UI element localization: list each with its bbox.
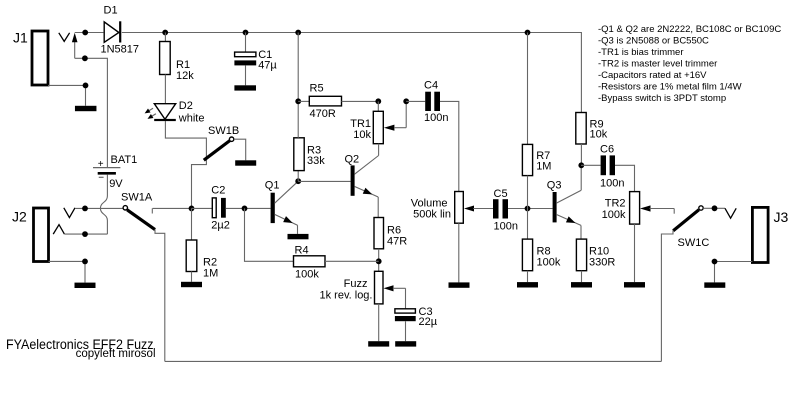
- svg-text:C5: C5: [494, 188, 508, 200]
- svg-text:100k: 100k: [537, 256, 561, 268]
- svg-text:12k: 12k: [176, 70, 194, 82]
- transistor Q3 emitter: [556, 214, 581, 225]
- node Q3 base junction: [525, 206, 531, 212]
- capacitor C2 plate 1: [212, 198, 216, 218]
- jack J3 body: [752, 207, 768, 262]
- svg-text:33k: 33k: [307, 155, 325, 167]
- node input junction: [189, 206, 195, 212]
- wire C3 bottom lead: [405, 321, 407, 341]
- ground at J3: [704, 282, 725, 287]
- node Q1 base junction: [242, 206, 248, 212]
- node J2 ring dot: [82, 231, 88, 237]
- wire TR1 bottom to Q2 collector: [378, 144, 380, 156]
- wire R5 right lead: [342, 100, 379, 102]
- svg-text:+: +: [98, 159, 104, 170]
- capacitor C1 negative plate: [234, 60, 256, 65]
- wire Fuzz bottom to ground: [378, 304, 380, 341]
- capacitor C3 negative plate: [395, 316, 416, 321]
- svg-text:9V: 9V: [109, 178, 123, 190]
- wire C4 left lead: [406, 100, 425, 102]
- transistor Q1 emitter: [275, 214, 298, 225]
- svg-text:500k lin: 500k lin: [413, 209, 451, 221]
- wire R5 left lead: [298, 100, 309, 102]
- ground at C1: [234, 85, 256, 90]
- svg-text:BAT1: BAT1: [111, 154, 138, 166]
- capacitor C2 plate 2: [221, 198, 226, 218]
- ground at R8: [517, 282, 538, 287]
- transistor Q2 base bar: [351, 165, 355, 195]
- wire J1 ring to battery plus: [75, 58, 108, 167]
- svg-text:J1: J1: [13, 30, 28, 46]
- potentiometer Fuzz body: [375, 271, 384, 304]
- resistor R4 horizontal: [294, 256, 326, 267]
- wire Q3 emitter to R10: [580, 225, 582, 239]
- jack J1 tip contact V symbol: [59, 33, 70, 42]
- trimmer TR1 wiper arrow: [384, 125, 395, 131]
- wire Q1 collector to Q2 base: [298, 180, 350, 182]
- switch SW1A blade: [127, 210, 155, 230]
- jack J1 tip arrow: [74, 39, 76, 58]
- svg-text:470R: 470R: [310, 108, 336, 120]
- battery BAT1 negative plate: [98, 172, 116, 175]
- capacitor C4 plate 1: [425, 92, 431, 111]
- wire J3 sleeve to ground: [715, 262, 753, 283]
- transistor Q3 collector: [556, 190, 581, 203]
- battery BAT1 positive plate: [93, 167, 120, 169]
- wire R1 to LED: [164, 75, 166, 104]
- resistor R6: [374, 218, 384, 249]
- node R6 fuzz junction: [376, 258, 382, 264]
- trimmer TR2 wiper arrow: [640, 205, 651, 211]
- ground at C3: [395, 341, 416, 346]
- wire R7 bottom lead: [527, 176, 529, 209]
- ground at Q1: [288, 234, 309, 239]
- transistor Q2 emitter: [354, 186, 378, 197]
- svg-text:47µ: 47µ: [258, 60, 277, 72]
- wire C1 top lead: [245, 33, 247, 52]
- svg-text:-Capacitors rated at +16V: -Capacitors rated at +16V: [598, 70, 707, 81]
- transistor Q1 collector: [275, 181, 299, 203]
- svg-text:10k: 10k: [590, 129, 608, 141]
- wire R3 bottom lead: [297, 171, 299, 182]
- svg-text:TR2: TR2: [605, 198, 626, 210]
- svg-text:D2: D2: [179, 100, 193, 112]
- node J3 sleeve dot: [712, 259, 718, 265]
- svg-text:47R: 47R: [387, 235, 407, 247]
- wire Volume bottom to ground: [458, 223, 460, 282]
- node J3 tip dot: [712, 205, 718, 211]
- node V+ R7 tap: [525, 30, 531, 36]
- resistor R3: [294, 138, 304, 171]
- potentiometer Volume body: [455, 192, 464, 224]
- resistor R8: [522, 239, 532, 271]
- LED D2 light arrow 2: [149, 114, 156, 118]
- diode D1: [104, 22, 119, 42]
- svg-text:−: −: [98, 173, 104, 184]
- node J2 tip dot: [82, 206, 88, 212]
- wire Q2 emitter to R6: [377, 197, 379, 218]
- wire Q1 emitter to ground: [297, 225, 299, 234]
- resistor R2: [186, 240, 197, 272]
- transistor Q2 collector: [354, 156, 378, 175]
- node J1 ring dot: [82, 55, 88, 61]
- wire R1 top lead: [164, 33, 166, 42]
- svg-text:-Bypass switch is 3PDT stomp: -Bypass switch is 3PDT stomp: [598, 93, 726, 104]
- wire Fuzz wiper to C3: [405, 288, 407, 309]
- capacitor C6 plate 1: [601, 155, 606, 175]
- switch SW1A lower throw to bypass bus: [155, 229, 165, 361]
- wire C6 left lead: [581, 164, 601, 166]
- wire J2 sleeve to ground: [49, 261, 86, 282]
- svg-text:100n: 100n: [600, 177, 624, 189]
- capacitor C5 plate 2: [503, 199, 509, 218]
- svg-text:C6: C6: [600, 143, 614, 155]
- ground at Fuzz: [368, 341, 389, 346]
- wire bypass bus: [165, 360, 662, 362]
- resistor R7: [522, 144, 532, 175]
- svg-text:1M: 1M: [203, 267, 218, 279]
- svg-text:SW1B: SW1B: [208, 125, 239, 137]
- switch SW1C common contact: [699, 206, 703, 210]
- svg-text:-Resistors are 1% metal film 1: -Resistors are 1% metal film 1/4W: [598, 82, 742, 93]
- svg-text:J3: J3: [774, 209, 789, 225]
- ground at TR2: [624, 282, 645, 287]
- wire SW1C common to J3 tip: [703, 207, 725, 209]
- jack J2 body: [34, 208, 49, 262]
- svg-text:Q1: Q1: [265, 180, 280, 192]
- resistor R1: [160, 42, 171, 75]
- wire R7 top lead: [527, 33, 529, 145]
- switch SW1C upper throw tick: [673, 209, 675, 214]
- svg-text:-TR2 is master level trimmer: -TR2 is master level trimmer: [598, 59, 717, 70]
- svg-text:22µ: 22µ: [419, 316, 438, 328]
- wire J1 sleeve to ground: [48, 85, 86, 105]
- wire R8 top lead: [527, 209, 529, 240]
- switch SW1A upper throw tick: [151, 208, 153, 213]
- node TR1 wiper junction: [403, 98, 409, 104]
- ground at SW1B: [235, 160, 256, 165]
- capacitor C5 plate 1: [493, 199, 499, 218]
- LED D2 light arrow 1: [146, 108, 153, 112]
- wire C1 bottom lead: [245, 65, 247, 85]
- svg-text:100n: 100n: [494, 221, 518, 233]
- wire LED cathode to SW1B throw: [165, 121, 206, 161]
- ground at J2: [75, 283, 96, 288]
- switch SW1C lower throw to bypass bus: [661, 230, 673, 361]
- jack J3 tip contact V symbol: [725, 208, 736, 218]
- svg-text:Fuzz: Fuzz: [344, 278, 368, 290]
- svg-text:C2: C2: [211, 185, 225, 197]
- wire V+ rail left segment: [75, 32, 104, 34]
- node R9 C6 junction: [578, 162, 584, 168]
- wire R6 bottom lead: [378, 249, 380, 271]
- switch SW1A common contact: [123, 206, 127, 210]
- trimmer TR1 body: [373, 111, 383, 143]
- resistor R5 horizontal: [309, 96, 341, 106]
- wire C2 to Q1 base: [226, 207, 271, 209]
- node TR1 top junction: [375, 98, 381, 104]
- wire C6 to TR2: [615, 165, 635, 191]
- potentiometer Fuzz wiper arrow: [384, 285, 394, 291]
- transistor Q1 base bar: [271, 193, 275, 223]
- wire input to C2: [192, 207, 213, 209]
- transistor Q3 base bar: [553, 192, 557, 222]
- wire SW1A to input node: [153, 207, 192, 209]
- svg-text:R4: R4: [295, 245, 309, 257]
- wire SW1B common to ground: [234, 139, 246, 160]
- ground at R10: [571, 282, 592, 287]
- svg-text:Q3: Q3: [547, 180, 562, 192]
- capacitor C3 positive plate: [395, 309, 416, 313]
- wire R9 bottom lead: [580, 144, 582, 165]
- node V+ R5 tap: [295, 30, 301, 36]
- wire R3 top lead to V+: [297, 33, 299, 138]
- svg-text:10k: 10k: [353, 129, 371, 141]
- node V+ R1 tap: [162, 30, 168, 36]
- wire C5 to Q3 base: [508, 208, 553, 210]
- node V+ C1 tap: [243, 30, 249, 36]
- wire Q1 base to R4: [245, 208, 294, 261]
- switch SW1C blade: [673, 210, 699, 231]
- node J2 sleeve dot: [82, 259, 88, 265]
- svg-text:1k rev. log.: 1k rev. log.: [320, 290, 373, 302]
- wire J2 ring to battery minus: [64, 233, 107, 235]
- svg-text:100k: 100k: [295, 269, 319, 281]
- svg-text:Q2: Q2: [345, 154, 360, 166]
- wire R4 right lead: [325, 260, 379, 262]
- wire C4 to Volume: [440, 101, 459, 191]
- node Q1 collector junction: [295, 178, 301, 184]
- node R5 left junction: [295, 98, 301, 104]
- wire R2 bottom lead: [191, 272, 193, 282]
- svg-text:100n: 100n: [424, 112, 448, 124]
- svg-text:1M: 1M: [536, 160, 551, 172]
- svg-text:-TR1 is bias trimmer: -TR1 is bias trimmer: [598, 47, 684, 58]
- wire Q3 collector up: [580, 165, 582, 190]
- svg-text:1N5817: 1N5817: [101, 44, 140, 56]
- ground at J1: [75, 106, 97, 111]
- wire R2 top lead: [191, 208, 193, 240]
- svg-text:330R: 330R: [589, 256, 615, 268]
- LED D2: [154, 104, 175, 120]
- wire SW1B throw to input node: [192, 161, 207, 208]
- wire R8 bottom lead: [527, 271, 529, 282]
- ground at Volume: [449, 282, 470, 287]
- svg-text:C4: C4: [424, 80, 438, 92]
- svg-text:2µ2: 2µ2: [211, 220, 230, 232]
- wire V+ rail main segment: [122, 33, 582, 113]
- node J1 sleeve dot: [83, 83, 89, 89]
- switch SW1B common contact: [229, 137, 233, 141]
- svg-text:-Q3 is 2N5088 or BC550C: -Q3 is 2N5088 or BC550C: [598, 35, 709, 46]
- resistor R10: [576, 239, 586, 271]
- svg-text:-Q1 & Q2 are 2N2222, BC108C or: -Q1 & Q2 are 2N2222, BC108C or BC109C: [598, 24, 781, 35]
- wire battery minus with hop over input: [100, 175, 107, 235]
- jack J1 body: [32, 31, 48, 85]
- wire J2 tip to SW1A: [75, 207, 123, 209]
- svg-text:white: white: [178, 112, 205, 124]
- svg-text:R5: R5: [310, 83, 324, 95]
- resistor R9: [576, 113, 586, 145]
- node V+ at J1 tip: [82, 30, 88, 36]
- wire TR2 bottom to ground: [634, 224, 636, 282]
- wire TR1 top lead: [377, 101, 379, 111]
- capacitor C6 plate 2: [610, 155, 615, 175]
- svg-text:SW1C: SW1C: [678, 237, 710, 249]
- wire TR1 wiper up: [405, 101, 407, 127]
- svg-text:J2: J2: [12, 209, 27, 225]
- trimmer TR2 body: [630, 192, 640, 225]
- wire R10 bottom lead: [581, 271, 583, 282]
- capacitor C1 positive plate: [235, 52, 256, 57]
- capacitor C4 plate 2: [434, 92, 440, 111]
- svg-text:SW1A: SW1A: [121, 192, 153, 204]
- switch SW1B blade: [204, 141, 230, 161]
- svg-text:100k: 100k: [602, 209, 626, 221]
- svg-text:D1: D1: [104, 5, 118, 17]
- jack J2 tip contact V symbol: [64, 208, 75, 218]
- jack J2 ring contact symbol: [53, 225, 64, 235]
- ground at R2: [181, 282, 202, 287]
- potentiometer Volume wiper arrow: [464, 206, 474, 212]
- svg-text:copyleft mirosol: copyleft mirosol: [76, 348, 156, 360]
